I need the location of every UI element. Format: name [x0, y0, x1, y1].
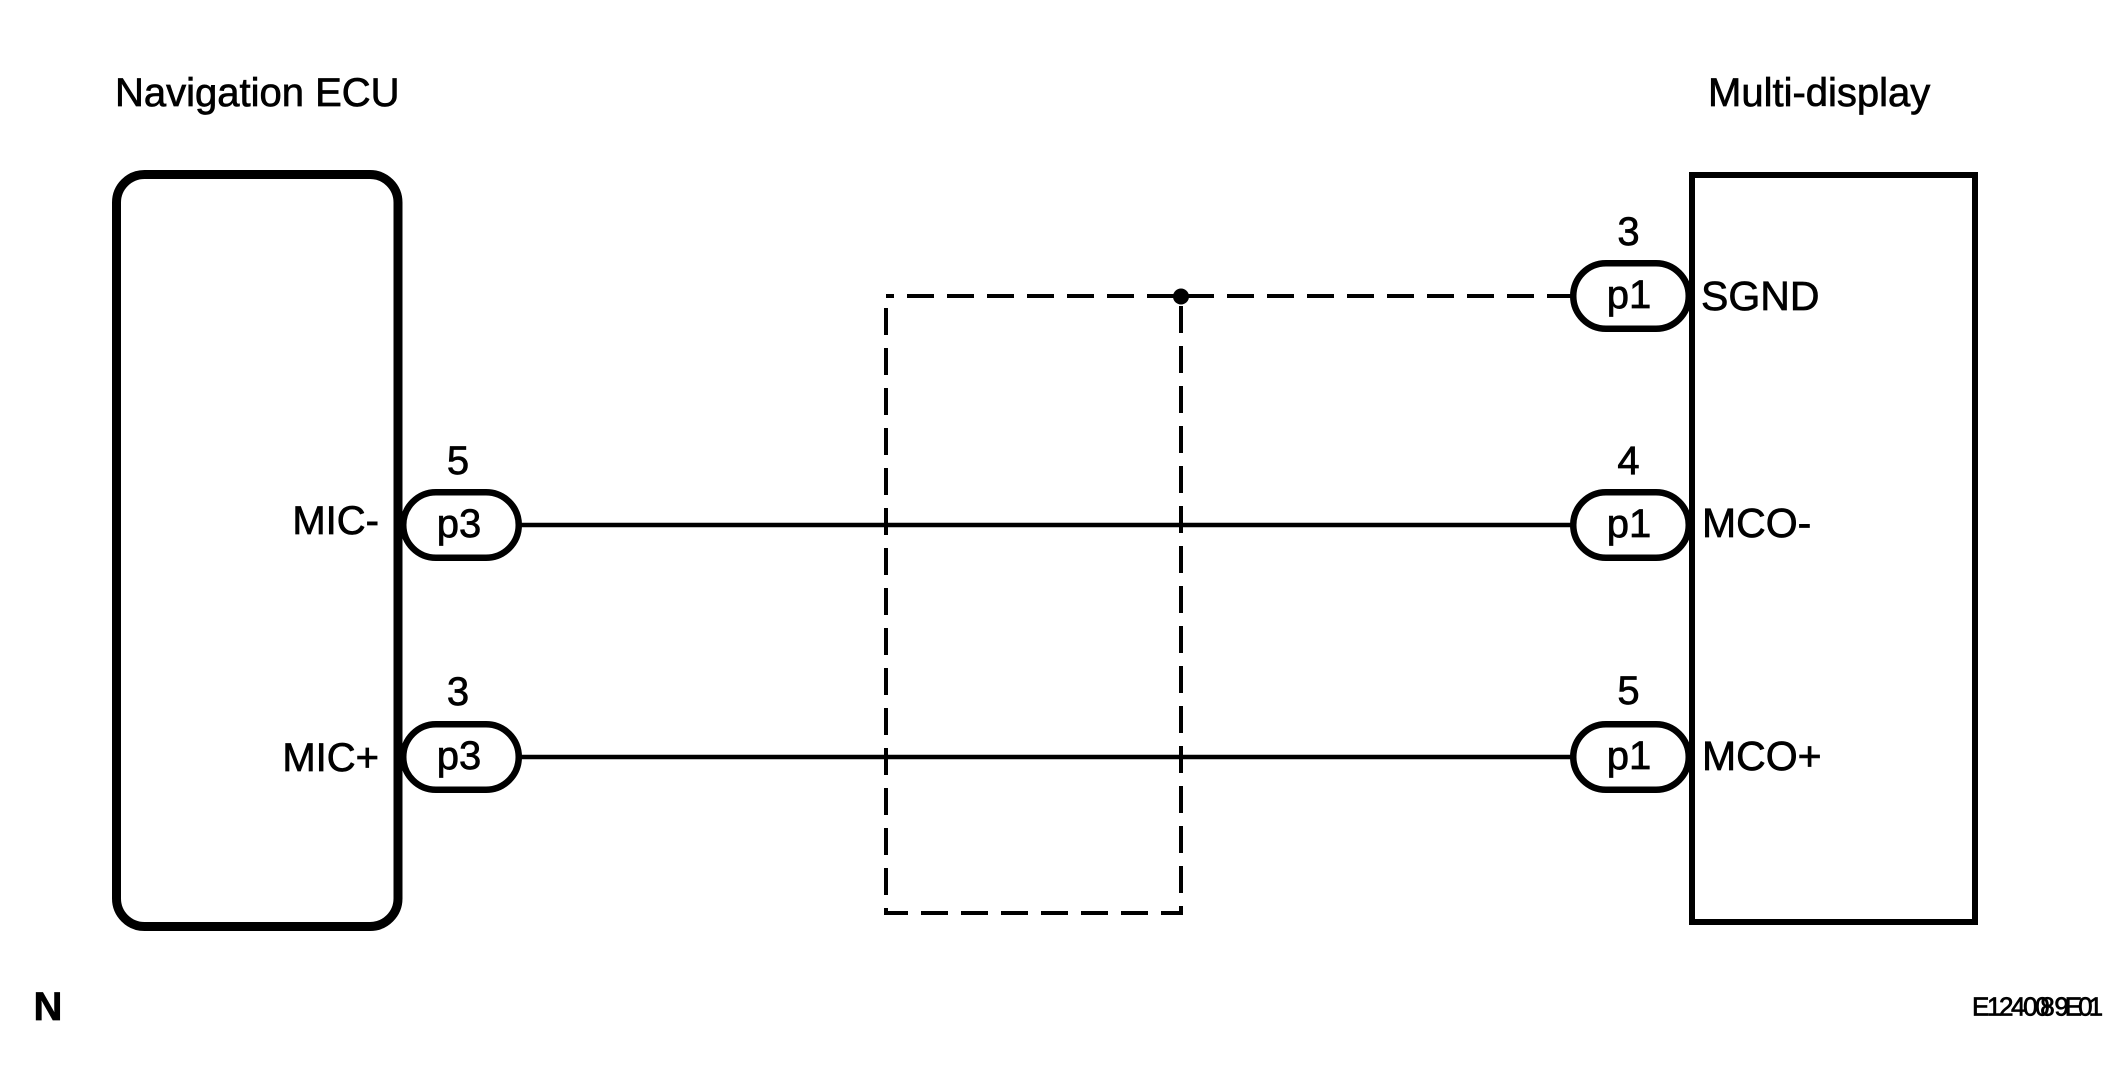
- svg-text:4: 4: [1617, 439, 1639, 483]
- svg-text:MCO+: MCO+: [1702, 733, 1822, 779]
- svg-text:N: N: [34, 985, 63, 1029]
- svg-text:p1: p1: [1607, 502, 1652, 546]
- svg-text:SGND: SGND: [1701, 273, 1819, 319]
- svg-text:p3: p3: [437, 502, 482, 546]
- svg-text:MCO-: MCO-: [1702, 500, 1811, 546]
- svg-text:5: 5: [447, 439, 469, 483]
- svg-text:Navigation ECU: Navigation ECU: [115, 71, 400, 115]
- svg-text:5: 5: [1617, 669, 1639, 713]
- svg-text:3: 3: [1617, 210, 1639, 254]
- svg-text:p3: p3: [437, 734, 482, 778]
- svg-text:Multi-display: Multi-display: [1708, 71, 1930, 115]
- svg-text:p1: p1: [1607, 734, 1652, 778]
- svg-text:E1240089E01: E1240089E01: [1972, 992, 2103, 1022]
- svg-text:p1: p1: [1607, 273, 1652, 317]
- svg-text:3: 3: [447, 670, 469, 714]
- svg-text:MIC+: MIC+: [282, 736, 379, 780]
- svg-text:MIC-: MIC-: [292, 499, 379, 543]
